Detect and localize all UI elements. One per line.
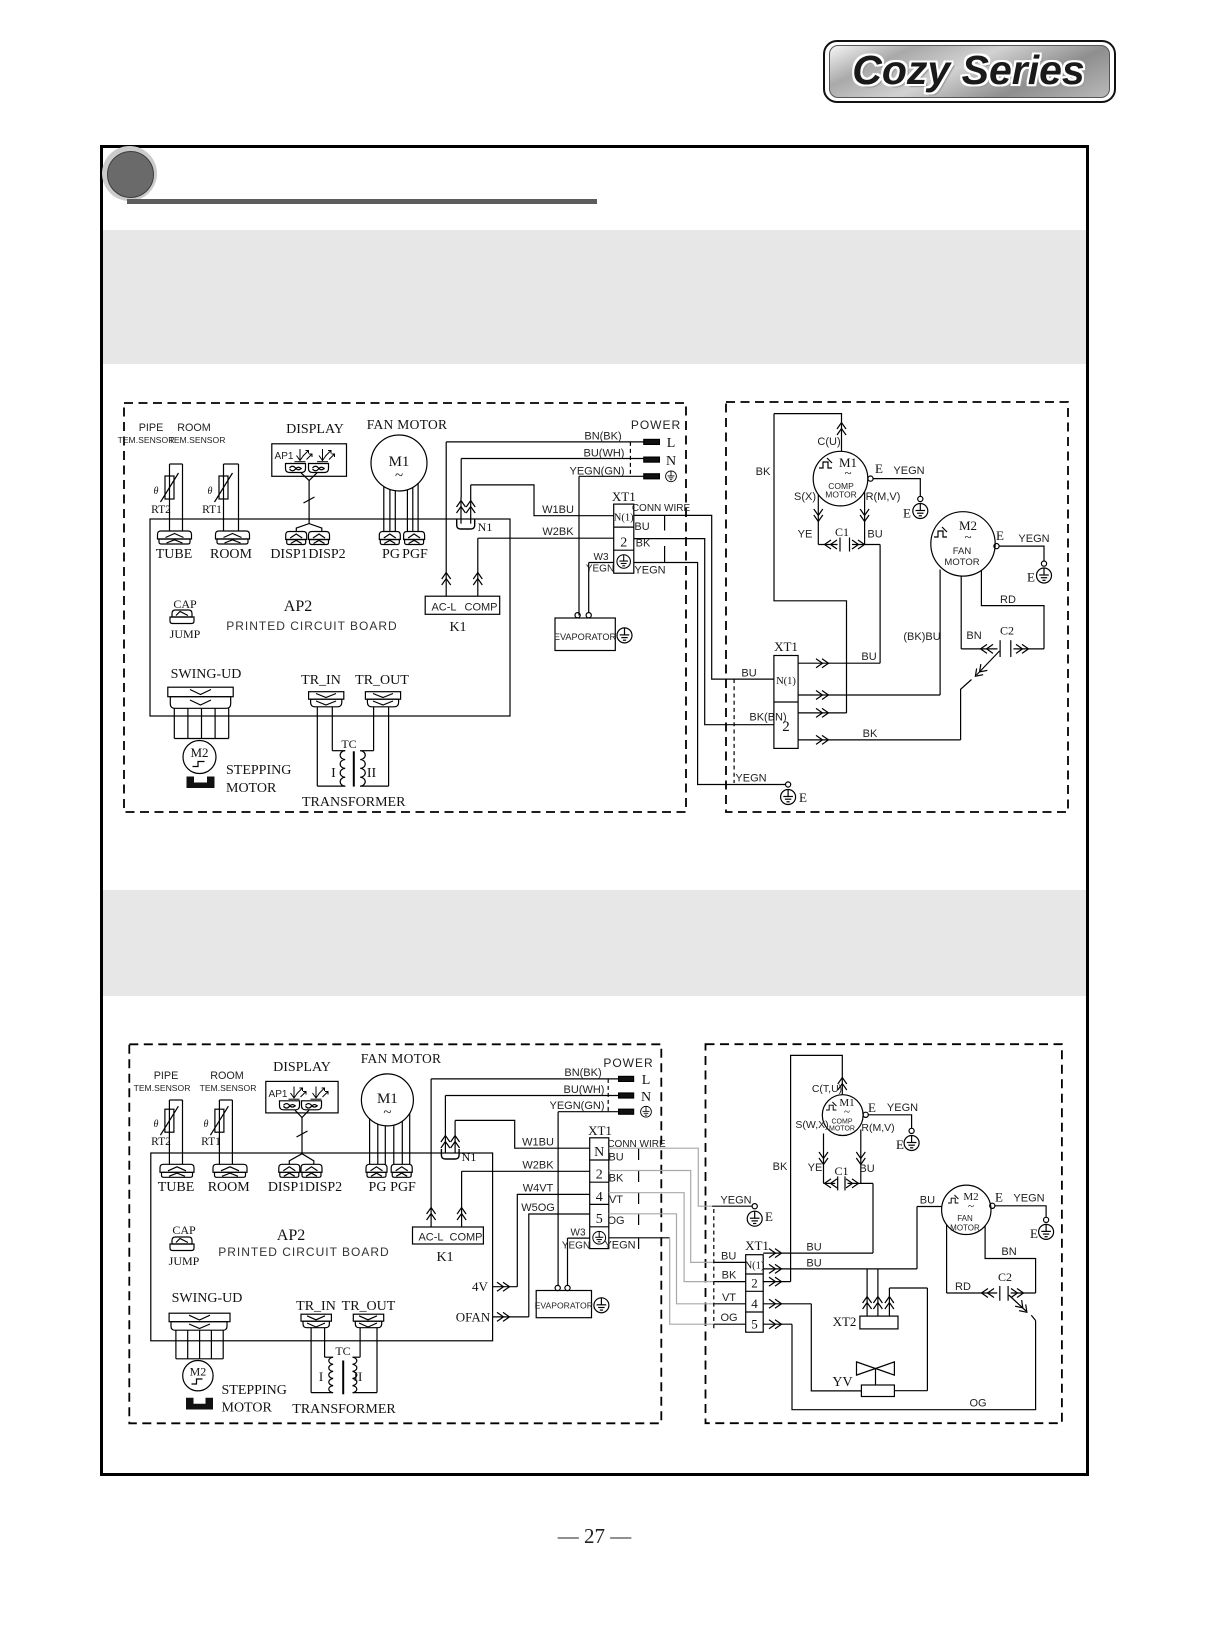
transformer TC xyxy=(302,707,406,810)
svg-text:N: N xyxy=(666,454,676,469)
wire W1BU N1 to XT1 xyxy=(455,1120,590,1148)
svg-text:AC-L: AC-L xyxy=(418,1232,443,1244)
svg-text:YEGN: YEGN xyxy=(735,773,766,785)
wire R(M,V) BU to C1 xyxy=(856,1122,894,1183)
svg-text:BU: BU xyxy=(806,1242,821,1254)
wire display to DISP connectors xyxy=(289,1110,314,1164)
svg-text:N(1): N(1) xyxy=(614,513,634,524)
svg-text:EVAPORATOR: EVAPORATOR xyxy=(535,1301,593,1311)
wire BU XT1 to C1 xyxy=(763,1183,873,1257)
svg-text:BU: BU xyxy=(861,651,876,663)
svg-text:YV: YV xyxy=(832,1375,852,1390)
XT2 connector xyxy=(833,1269,898,1329)
svg-text:SWING-UD: SWING-UD xyxy=(172,1291,243,1306)
wire OG XT1-5 to C2 plug xyxy=(763,1315,1035,1409)
svg-text:BK: BK xyxy=(756,466,771,478)
svg-text:PGF: PGF xyxy=(402,547,428,562)
svg-text:YE: YE xyxy=(798,529,813,541)
svg-text:YEGN: YEGN xyxy=(586,564,614,575)
wire earth YEGN(GN) xyxy=(570,465,644,615)
terminal block XT1 (indoor) xyxy=(588,1123,612,1249)
conn wire BK indoor XT1 to outdoor XT1 xyxy=(634,538,787,725)
svg-text:TR_OUT: TR_OUT xyxy=(342,1299,396,1314)
connector PGF xyxy=(402,532,428,563)
svg-text:K1: K1 xyxy=(436,1250,453,1265)
conn wire YEGN indoor XT1 earth to outdoor earth xyxy=(634,563,807,806)
wire BU C1 to XT1 N(1) xyxy=(798,545,880,668)
svg-text:BN(BK): BN(BK) xyxy=(584,431,621,443)
svg-text:BU: BU xyxy=(721,1251,736,1263)
wire BN fan motor to C2 xyxy=(961,576,981,649)
connector PGF xyxy=(390,1164,416,1195)
svg-text:2: 2 xyxy=(782,719,790,735)
cable bundle dashed mark xyxy=(733,679,735,783)
wire S(X) YE to C1 xyxy=(794,491,823,545)
outdoor unit dashed box xyxy=(706,1044,1062,1423)
svg-text:YEGN(GN): YEGN(GN) xyxy=(570,465,625,477)
svg-text:BU: BU xyxy=(634,521,649,533)
svg-text:OFAN: OFAN xyxy=(456,1310,491,1325)
connector TR_IN xyxy=(296,1299,336,1328)
svg-text:YE: YE xyxy=(808,1162,823,1174)
svg-text:XT2: XT2 xyxy=(833,1314,857,1329)
svg-text:TC: TC xyxy=(335,1344,350,1358)
display unit AP1 xyxy=(266,1060,338,1113)
svg-text:BU(WH): BU(WH) xyxy=(564,1084,605,1096)
stepping motor M2 (indoor) xyxy=(183,1361,287,1416)
svg-text:E: E xyxy=(995,1190,1003,1205)
evaporator xyxy=(554,613,632,651)
svg-text:N1: N1 xyxy=(462,1150,477,1164)
svg-text:BU: BU xyxy=(920,1195,935,1207)
connector SWING-UD xyxy=(169,1291,242,1359)
wire BK into outdoor XT1 2 xyxy=(714,1270,746,1282)
svg-text:ROOM: ROOM xyxy=(208,1180,251,1195)
svg-text:JUMP: JUMP xyxy=(170,627,201,641)
svg-text:RT1: RT1 xyxy=(201,1136,221,1148)
PCB AP2 outline xyxy=(151,1153,493,1341)
svg-text:(BK)BU: (BK)BU xyxy=(903,631,940,643)
connector TR_IN xyxy=(301,673,344,707)
wire display to DISP connectors xyxy=(296,473,322,532)
terminal block XT1 (indoor) xyxy=(612,489,636,573)
relay K1 xyxy=(425,596,500,635)
svg-text:~: ~ xyxy=(383,1105,391,1121)
earth E of comp motor xyxy=(863,1100,919,1152)
svg-text:N: N xyxy=(641,1090,651,1105)
svg-text:W2BK: W2BK xyxy=(542,526,574,538)
svg-text:TUBE: TUBE xyxy=(156,547,193,562)
connector ROOM xyxy=(208,1164,251,1195)
stepping motor M2 (indoor) xyxy=(183,741,291,797)
svg-text:E: E xyxy=(1027,570,1035,585)
wire OG into outdoor XT1 5 xyxy=(714,1312,746,1324)
svg-text:TEM.SENSOR: TEM.SENSOR xyxy=(200,1083,257,1093)
svg-text:RD: RD xyxy=(955,1281,971,1293)
fan motor M1 (indoor) xyxy=(361,1051,442,1126)
svg-text:XT1: XT1 xyxy=(774,639,798,654)
svg-text:ROOM: ROOM xyxy=(210,1070,244,1082)
wire RD fan motor to C2 xyxy=(947,1225,998,1293)
svg-text:BK(BN): BK(BN) xyxy=(749,712,786,724)
svg-text:YEGN: YEGN xyxy=(634,565,665,577)
power terminals xyxy=(630,418,681,482)
earth E of comp motor xyxy=(868,461,928,521)
svg-text:BK: BK xyxy=(609,1173,624,1185)
svg-text:FAN: FAN xyxy=(957,1214,973,1223)
svg-text:TEM.SENSOR: TEM.SENSOR xyxy=(118,435,175,445)
svg-text:YEGN: YEGN xyxy=(1018,533,1049,545)
svg-text:COMP: COMP xyxy=(450,1232,483,1244)
banner 2 (grey) xyxy=(103,890,1086,996)
svg-text:YEGN: YEGN xyxy=(720,1195,751,1207)
svg-text:E: E xyxy=(875,461,883,476)
capacitor C2 xyxy=(982,1270,1036,1301)
svg-text:STEPPING: STEPPING xyxy=(226,763,291,778)
svg-text:W4VT: W4VT xyxy=(523,1183,554,1195)
svg-text:~: ~ xyxy=(968,1201,974,1213)
svg-text:BK: BK xyxy=(722,1270,737,1282)
svg-text:PRINTED CIRCUIT BOARD: PRINTED CIRCUIT BOARD xyxy=(218,1245,389,1259)
svg-text:VT: VT xyxy=(722,1292,736,1304)
wire W2BK K1 COMP to XT1-2 xyxy=(457,1160,590,1228)
svg-text:TUBE: TUBE xyxy=(158,1180,195,1195)
svg-text:POWER: POWER xyxy=(631,418,681,432)
svg-text:TRANSFORMER: TRANSFORMER xyxy=(302,795,406,810)
connector CAP / JUMP xyxy=(169,1223,200,1268)
svg-text:I: I xyxy=(319,1369,323,1384)
svg-text:SWING-UD: SWING-UD xyxy=(171,667,242,682)
svg-text:~: ~ xyxy=(395,468,403,484)
conn wire 2 to outdoor N(1) (grey) xyxy=(609,1171,714,1263)
svg-text:COMP: COMP xyxy=(465,602,498,614)
svg-text:E: E xyxy=(765,1209,773,1224)
svg-text:BN: BN xyxy=(1001,1246,1016,1258)
svg-text:~: ~ xyxy=(964,529,971,544)
comp motor M1 (outdoor) xyxy=(822,1095,863,1136)
wire W4VT 4V to XT1-4 xyxy=(472,1183,590,1295)
svg-text:θ: θ xyxy=(154,1119,159,1130)
wire separator ticks xyxy=(638,1148,640,1249)
svg-text:R(M,V): R(M,V) xyxy=(861,1122,894,1134)
svg-text:4: 4 xyxy=(596,1190,603,1205)
transformer TC xyxy=(292,1328,396,1417)
svg-text:TR_OUT: TR_OUT xyxy=(355,673,409,688)
indoor unit dashed box xyxy=(129,1044,661,1423)
svg-text:AP1: AP1 xyxy=(275,451,294,462)
svg-text:θ: θ xyxy=(154,486,159,497)
wire W3 YEGN evaporator to XT1 earth xyxy=(562,1228,590,1286)
cable bundle dashed mark xyxy=(713,1209,715,1330)
svg-text:RD: RD xyxy=(1000,594,1016,606)
connector CAP / JUMP xyxy=(170,597,201,641)
conn wire BU indoor XT1 to outdoor XT1 xyxy=(634,515,774,679)
svg-text:2: 2 xyxy=(596,1168,603,1183)
capacitor C1 xyxy=(824,1164,874,1190)
svg-text:C2: C2 xyxy=(998,1270,1012,1284)
svg-text:YEGN: YEGN xyxy=(1013,1193,1044,1205)
display unit AP1 xyxy=(272,422,347,476)
connector SWING-UD xyxy=(168,667,242,739)
svg-text:BU: BU xyxy=(867,529,882,541)
svg-text:I: I xyxy=(331,766,336,781)
svg-text:PIPE: PIPE xyxy=(139,422,164,434)
wire N BU(WH) xyxy=(461,448,644,498)
wires fan motor to PG / PGF xyxy=(370,1113,410,1164)
svg-text:5: 5 xyxy=(751,1317,758,1332)
svg-text:MOTOR: MOTOR xyxy=(829,1126,855,1133)
wire BU XT1 to XT2 and fan motor xyxy=(763,1195,942,1274)
wire C(U) comp top xyxy=(774,414,846,452)
earth E of fan motor xyxy=(990,1190,1054,1242)
power terminals xyxy=(603,1056,653,1117)
svg-text:K1: K1 xyxy=(449,620,466,635)
conn wire earth to outdoor 5 xyxy=(609,1238,714,1324)
section header circle icon xyxy=(102,146,157,201)
svg-text:YEGN(GN): YEGN(GN) xyxy=(550,1100,605,1112)
svg-text:CONN WIRE: CONN WIRE xyxy=(632,503,691,514)
svg-text:E: E xyxy=(868,1100,876,1115)
wire earth YEGN(GN) xyxy=(550,1100,619,1286)
svg-text:N(1): N(1) xyxy=(776,676,796,687)
svg-text:W1BU: W1BU xyxy=(542,504,574,516)
svg-text:DISP2: DISP2 xyxy=(305,1180,342,1195)
svg-text:FAN: FAN xyxy=(953,546,972,557)
svg-text:ROOM: ROOM xyxy=(177,422,211,434)
svg-text:XT1: XT1 xyxy=(588,1123,612,1138)
svg-text:COMP: COMP xyxy=(832,1119,853,1126)
wire L power to K1 AC-L xyxy=(442,442,451,596)
svg-text:W3: W3 xyxy=(594,552,609,563)
connector DISP1 xyxy=(268,1164,305,1195)
wire VT into outdoor XT1 4 xyxy=(714,1292,746,1304)
wire L BN(BK) xyxy=(431,1067,618,1079)
connector TUBE xyxy=(156,531,193,562)
svg-text:AC-L: AC-L xyxy=(431,602,456,614)
svg-text:BK: BK xyxy=(863,728,878,740)
svg-text:BU(WH): BU(WH) xyxy=(584,448,625,460)
svg-text:DISP2: DISP2 xyxy=(308,547,345,562)
wire BN fan motor to C2 right xyxy=(985,1226,1036,1293)
svg-text:E: E xyxy=(1030,1226,1038,1241)
wire VT XT1-4 to valve YV xyxy=(763,1299,861,1391)
svg-text:YEGN: YEGN xyxy=(893,465,924,477)
capacitor C2 xyxy=(961,624,1044,658)
svg-text:M2: M2 xyxy=(190,745,208,760)
svg-text:AP1: AP1 xyxy=(269,1089,288,1100)
svg-text:E: E xyxy=(799,790,807,805)
wire L BN(BK) xyxy=(446,431,644,443)
indoor unit dashed box xyxy=(124,403,686,812)
svg-text:TR_IN: TR_IN xyxy=(301,673,341,688)
svg-text:DISPLAY: DISPLAY xyxy=(286,422,344,437)
svg-text:AP2: AP2 xyxy=(284,598,312,615)
svg-text:4V: 4V xyxy=(472,1279,489,1294)
svg-text:MOTOR: MOTOR xyxy=(226,781,277,796)
wire W3 YEGN evaporator to XT1 earth xyxy=(586,552,614,613)
svg-text:DISPLAY: DISPLAY xyxy=(273,1060,331,1075)
svg-text:BU: BU xyxy=(608,1152,623,1164)
svg-text:BK: BK xyxy=(773,1161,788,1173)
svg-text:TEM.SENSOR: TEM.SENSOR xyxy=(169,435,226,445)
svg-text:N(1): N(1) xyxy=(745,1261,765,1272)
svg-text:L: L xyxy=(642,1073,651,1088)
svg-text:R(M,V): R(M,V) xyxy=(866,491,901,503)
svg-text:STEPPING: STEPPING xyxy=(222,1383,287,1398)
svg-text:POWER: POWER xyxy=(603,1056,653,1070)
svg-text:RT2: RT2 xyxy=(151,504,171,516)
svg-text:BN(BK): BN(BK) xyxy=(564,1067,601,1079)
wire W2BK K1 COMP to XT1-2 xyxy=(473,526,613,596)
svg-text:S(W,X): S(W,X) xyxy=(795,1119,828,1131)
svg-text:C(U): C(U) xyxy=(817,436,840,448)
connector PG xyxy=(366,1164,387,1195)
svg-text:XT1: XT1 xyxy=(745,1238,769,1253)
PCB AP2 outline xyxy=(150,519,510,716)
connector TR_OUT xyxy=(342,1299,396,1328)
svg-text:II: II xyxy=(367,766,377,781)
svg-text:ROOM: ROOM xyxy=(210,547,253,562)
svg-text:2: 2 xyxy=(620,536,627,551)
svg-text:θ: θ xyxy=(208,486,213,497)
svg-text:~: ~ xyxy=(844,1106,850,1118)
svg-text:MOTOR: MOTOR xyxy=(944,557,979,568)
connector N1 xyxy=(457,485,493,534)
wire R(M,V) BU to C1 xyxy=(860,491,900,545)
plug arrow at C2 xyxy=(1009,1295,1030,1315)
svg-text:OG: OG xyxy=(969,1398,986,1410)
wire BK comp to XT1-2 xyxy=(756,414,847,718)
wires fan motor to PG / PGF xyxy=(384,484,418,532)
svg-text:TC: TC xyxy=(341,737,356,751)
fan motor M2 (outdoor) xyxy=(931,512,995,576)
section header bar xyxy=(127,199,597,204)
svg-text:OG: OG xyxy=(720,1312,737,1324)
wire N BU(WH) xyxy=(445,1084,618,1134)
connector TR_OUT xyxy=(355,673,409,707)
svg-text:W1BU: W1BU xyxy=(522,1137,554,1149)
svg-text:L: L xyxy=(667,436,676,451)
svg-text:W3: W3 xyxy=(571,1228,586,1239)
svg-text:MOTOR: MOTOR xyxy=(825,490,856,500)
svg-text:VT: VT xyxy=(609,1194,623,1206)
svg-text:C(T,U): C(T,U) xyxy=(812,1083,842,1095)
wire BK XT1-2 to comp motor xyxy=(763,1055,847,1286)
svg-text:TEM.SENSOR: TEM.SENSOR xyxy=(134,1083,191,1093)
page number xyxy=(0,1524,1189,1549)
svg-text:E: E xyxy=(896,1137,904,1152)
room temp sensor RT1 xyxy=(200,1070,257,1164)
svg-text:PGF: PGF xyxy=(390,1180,416,1195)
svg-text:JUMP: JUMP xyxy=(169,1254,200,1268)
connector TUBE xyxy=(158,1164,195,1195)
svg-text:C1: C1 xyxy=(835,525,849,539)
terminal block XT1 (outdoor) xyxy=(745,1238,769,1332)
svg-text:BU: BU xyxy=(806,1257,821,1269)
svg-text:θ: θ xyxy=(204,1119,209,1130)
svg-text:YEGN: YEGN xyxy=(887,1102,918,1114)
svg-text:CAP: CAP xyxy=(173,597,197,611)
svg-text:BU: BU xyxy=(859,1163,874,1175)
comp motor M1 (outdoor) xyxy=(813,451,868,506)
wire W5OG OFAN to XT1-5 xyxy=(456,1202,590,1325)
fan motor M2 (outdoor) xyxy=(942,1185,991,1234)
svg-text:MOTOR: MOTOR xyxy=(222,1401,273,1416)
svg-text:BK: BK xyxy=(636,538,651,550)
room temp sensor RT1 xyxy=(169,422,239,531)
svg-text:FAN MOTOR: FAN MOTOR xyxy=(361,1051,442,1066)
svg-text:M2: M2 xyxy=(190,1365,207,1379)
svg-text:PG: PG xyxy=(369,1180,387,1195)
outdoor earth YEGN xyxy=(712,1195,773,1227)
wire BK XT1-2 to C2 plug xyxy=(798,680,971,745)
connector DISP2 xyxy=(301,1164,342,1195)
svg-text:AP2: AP2 xyxy=(277,1227,305,1244)
svg-text:BU: BU xyxy=(741,668,756,680)
connector DISP1 xyxy=(270,532,307,563)
svg-text:BN: BN xyxy=(966,630,981,642)
wire (BK)BU XT1 N(1) to fan motor xyxy=(798,570,941,700)
svg-text:N1: N1 xyxy=(478,520,493,534)
connector DISP2 xyxy=(308,532,345,563)
terminal block XT1 (outdoor) xyxy=(774,639,798,748)
svg-text:4: 4 xyxy=(751,1296,758,1311)
wire W1BU N1 to XT1 xyxy=(471,485,614,516)
svg-text:DISP1: DISP1 xyxy=(270,547,307,562)
evaporator xyxy=(535,1285,609,1317)
svg-text:C1: C1 xyxy=(834,1164,848,1178)
relay K1 xyxy=(413,1227,484,1265)
conn wire 4 to outdoor 2 (grey) xyxy=(609,1193,714,1282)
svg-text:CAP: CAP xyxy=(172,1223,196,1237)
pipe temp sensor RT2 xyxy=(118,422,183,531)
svg-text:DISP1: DISP1 xyxy=(268,1180,305,1195)
conn wire N to outdoor earth (grey) xyxy=(609,1148,712,1206)
svg-text:N: N xyxy=(594,1145,604,1160)
svg-text:E: E xyxy=(996,528,1004,543)
svg-text:RT2: RT2 xyxy=(151,1136,171,1148)
pipe temp sensor RT2 xyxy=(134,1070,191,1164)
svg-text:~: ~ xyxy=(844,465,851,480)
solenoid valve YV xyxy=(832,1288,927,1397)
svg-text:2: 2 xyxy=(751,1276,758,1291)
svg-text:C2: C2 xyxy=(1000,624,1014,638)
svg-text:RT1: RT1 xyxy=(202,504,222,516)
svg-text:XT1: XT1 xyxy=(612,489,636,504)
connector PG xyxy=(379,532,400,563)
banner 1 (grey) xyxy=(103,230,1086,364)
svg-text:TR_IN: TR_IN xyxy=(296,1299,336,1314)
svg-text:YEGN: YEGN xyxy=(562,1241,590,1252)
svg-text:PG: PG xyxy=(382,547,400,562)
wire BU into outdoor XT1 N(1) xyxy=(714,1251,746,1263)
svg-text:E: E xyxy=(903,506,911,521)
wire RD fan motor to C2 right xyxy=(981,570,1044,649)
svg-text:YEGN: YEGN xyxy=(604,1240,635,1252)
svg-text:PRINTED CIRCUIT BOARD: PRINTED CIRCUIT BOARD xyxy=(226,619,397,633)
outdoor unit dashed box xyxy=(726,402,1068,812)
svg-text:EVAPORATOR: EVAPORATOR xyxy=(554,632,617,642)
svg-text:W2BK: W2BK xyxy=(522,1160,554,1172)
svg-text:MOTOR: MOTOR xyxy=(950,1224,980,1233)
svg-text:PIPE: PIPE xyxy=(154,1070,179,1082)
plug arrow at C2 xyxy=(972,651,999,679)
svg-text:II: II xyxy=(354,1369,363,1384)
connector N1 xyxy=(441,1120,476,1164)
Cozy Series logo xyxy=(823,40,1116,103)
svg-text:FAN MOTOR: FAN MOTOR xyxy=(367,417,448,432)
svg-text:5: 5 xyxy=(596,1212,603,1227)
